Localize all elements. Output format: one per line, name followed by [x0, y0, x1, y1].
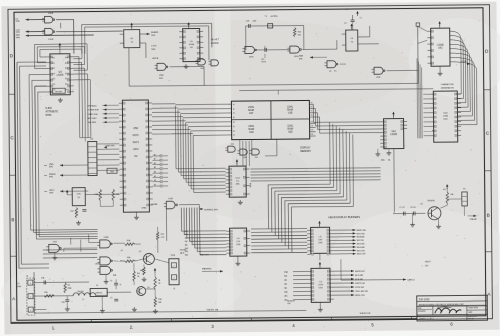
svg-text:D52: D52 [255, 157, 258, 159]
svg-text:C84: C84 [287, 303, 290, 305]
svg-text:SH5: SH5 [381, 160, 385, 162]
svg-text:U50: U50 [133, 126, 138, 130]
svg-text:VMD: VMD [49, 164, 54, 166]
svg-text:SM1: SM1 [284, 275, 287, 277]
svg-text:VTR: VTR [77, 194, 82, 196]
svg-text:C8 .05: C8 .05 [410, 207, 415, 209]
svg-text:C4: C4 [110, 297, 112, 299]
svg-text:DM1: DM1 [185, 234, 188, 236]
svg-text:2N4-A1B: 2N4-A1B [427, 199, 435, 202]
svg-text:C7: C7 [360, 17, 362, 19]
svg-text:1475: 1475 [318, 284, 324, 286]
svg-text:INTC: INTC [133, 133, 139, 137]
svg-text:LS166: LS166 [437, 45, 444, 47]
svg-text:1: 1 [30, 283, 31, 285]
svg-text:3: 3 [30, 310, 31, 312]
svg-text:SH2 SH7: SH2 SH7 [55, 91, 62, 93]
svg-text:R32: R32 [298, 32, 301, 34]
svg-text:LS04: LS04 [294, 56, 298, 58]
svg-text:22pf: 22pf [253, 20, 257, 22]
svg-text:BUSREQ SH2: BUSREQ SH2 [204, 209, 218, 211]
svg-text:SA71: SA71 [133, 140, 140, 144]
svg-text:WREN: WREN [49, 174, 56, 176]
svg-text:C3: C3 [110, 280, 112, 282]
svg-text:24HC8: 24HC8 [95, 292, 103, 294]
svg-text:DA-07: DA-07 [425, 260, 432, 263]
svg-text:LS08: LS08 [168, 198, 172, 200]
svg-text:161A: 161A [189, 43, 195, 46]
svg-text:START RGE: START RGE [87, 113, 98, 116]
svg-text:MCN 5B1: MCN 5B1 [355, 275, 363, 277]
svg-text:DB3: DB3 [311, 134, 314, 136]
svg-text:4.0 MHz: 4.0 MHz [271, 16, 278, 18]
svg-text:SHEET 1 OF 2: SHEET 1 OF 2 [419, 318, 434, 320]
svg-text:R7: R7 [121, 250, 123, 252]
svg-text:L996: L996 [443, 116, 449, 118]
svg-text:GPA 0A5: GPA 0A5 [469, 218, 476, 221]
svg-text:BD1: BD1 [65, 63, 69, 65]
svg-text:MDA 4A1: MDA 4A1 [357, 236, 365, 239]
svg-text:WIPE CDR: WIPE CDR [355, 295, 365, 297]
svg-text:.01: .01 [119, 284, 121, 286]
svg-text:R8: R8 [68, 285, 70, 287]
svg-text:VD2: VD2 [52, 68, 56, 70]
svg-text:Q1: Q1 [420, 203, 423, 205]
svg-text:U1: U1 [96, 285, 98, 287]
svg-text:MERV 5BC: MERV 5BC [357, 230, 367, 232]
svg-text:MEMORY: MEMORY [300, 150, 311, 153]
svg-text:V5 0B1: V5 0B1 [461, 61, 467, 63]
svg-text:LS08: LS08 [95, 263, 99, 265]
svg-text:MD4 4A1: MD4 4A1 [357, 246, 365, 249]
svg-text:U17: U17 [249, 112, 254, 115]
svg-text:CHAU: CHAU [141, 206, 147, 209]
svg-text:SHE WRE: SHE WRE [88, 122, 97, 124]
svg-text:GENERATOR: GENERATOR [441, 87, 454, 90]
svg-text:SH3: SH3 [159, 78, 163, 80]
svg-text:B-28057-A: B-28057-A [468, 315, 477, 318]
svg-text:D5YN 5B1: D5YN 5B1 [355, 287, 364, 289]
svg-text:IN3: IN3 [310, 115, 312, 117]
svg-text:U18: U18 [288, 111, 293, 114]
svg-text:BD5: BD5 [65, 84, 69, 86]
svg-text:BD0: BD0 [65, 57, 69, 59]
svg-text:U51: U51 [231, 144, 234, 146]
svg-text:C26: C26 [246, 21, 249, 23]
svg-text:DB2: DB2 [311, 130, 314, 132]
svg-text:L1: L1 [82, 299, 84, 301]
svg-text:U20: U20 [288, 130, 293, 133]
svg-text:DB0: DB0 [311, 121, 314, 123]
svg-text:WARNING: WARNING [202, 267, 212, 270]
svg-text:PHONE: PHONE [180, 250, 187, 252]
svg-text:CHOKE: CHOKE [77, 291, 84, 293]
svg-text:+8 +4.7: +8 +4.7 [211, 38, 220, 41]
svg-text:ONLY 4A1 5B2: ONLY 4A1 5B2 [355, 290, 368, 293]
svg-text:IN0: IN0 [310, 102, 312, 104]
svg-text:MSUN 3D4: MSUN 3D4 [355, 271, 365, 273]
svg-text:C7 .47: C7 .47 [399, 207, 404, 209]
svg-text:BD2: BD2 [65, 68, 69, 70]
svg-text:BLANK: BLANK [151, 31, 159, 34]
svg-text:2: 2 [174, 278, 175, 280]
svg-text:B: B [11, 217, 14, 222]
svg-text:POWER RGE: POWER RGE [87, 110, 99, 112]
svg-text:5V: 5V [134, 154, 137, 158]
svg-text:WAIT SH4: WAIT SH4 [200, 253, 209, 256]
svg-text:Q3: Q3 [147, 287, 149, 289]
svg-text:BUSAK: BUSAK [151, 203, 158, 206]
svg-text:BD4: BD4 [65, 78, 69, 80]
svg-text:T0A 3E1 J4A: T0A 3E1 J4A [206, 308, 218, 311]
svg-text:VD6: VD6 [52, 89, 56, 91]
svg-text:LS08: LS08 [48, 39, 54, 41]
svg-text:VD3: VD3 [52, 73, 56, 75]
svg-text:VD5: VD5 [52, 84, 56, 86]
svg-text:1.: 1. [52, 325, 56, 330]
svg-text:R9: R9 [443, 189, 445, 191]
svg-text:ATTRIBUTE: ATTRIBUTE [45, 110, 58, 113]
svg-text:U10B: U10B [104, 237, 109, 239]
svg-text:LS74: LS74 [151, 45, 157, 47]
svg-text:MD6 CDR: MD6 CDR [357, 254, 366, 256]
svg-text:Q2: Q2 [139, 251, 141, 253]
svg-text:N-800: N-800 [45, 108, 52, 110]
svg-text:334: 334 [298, 35, 301, 37]
svg-text:T3: T3 [345, 9, 347, 11]
svg-text:LS08: LS08 [48, 13, 54, 15]
svg-text:DISPV5 4B: DISPV5 4B [355, 283, 365, 285]
svg-text:1: 1 [173, 266, 174, 268]
svg-text:MD3 5B1: MD3 5B1 [357, 243, 365, 245]
svg-text:WPU: WPU [49, 190, 54, 192]
svg-text:T0A 3E1 246: T0A 3E1 246 [359, 312, 370, 315]
svg-text:2: 2 [30, 297, 31, 299]
svg-text:U42: U42 [438, 48, 443, 50]
svg-text:P4: P4 [463, 188, 465, 190]
svg-text:S04: S04 [200, 68, 203, 70]
svg-text:R13: R13 [161, 234, 164, 236]
svg-text:BD3: BD3 [65, 73, 69, 75]
svg-text:SH5: SH5 [299, 58, 303, 60]
svg-text:CHARACTER: CHARACTER [441, 83, 454, 86]
svg-text:S/N 1032: S/N 1032 [419, 297, 430, 301]
svg-text:MCA 4A1: MCA 4A1 [355, 278, 363, 281]
svg-text:HEAD DISPLAY BUFFERS: HEAD DISPLAY BUFFERS [328, 215, 360, 219]
svg-text:RAS: RAS [299, 54, 304, 57]
svg-text:Y1: Y1 [265, 16, 267, 18]
svg-text:2M3: 2M3 [284, 295, 287, 297]
svg-text:LS165: LS165 [390, 134, 397, 136]
svg-text:CPU: CPU [133, 147, 139, 151]
svg-text:IN2: IN2 [310, 111, 312, 113]
svg-text:ANT RGE2: ANT RGE2 [88, 117, 97, 120]
svg-text:U41: U41 [392, 131, 397, 133]
svg-text:0M3: 0M3 [185, 255, 188, 257]
svg-text:LS04: LS04 [376, 77, 380, 79]
svg-text:B: B [487, 213, 490, 218]
svg-text:VD1: VD1 [51, 63, 55, 65]
svg-text:CLAIR SH5: CLAIR SH5 [105, 144, 115, 147]
svg-text:BD6: BD6 [65, 89, 69, 91]
svg-text:SH07A A1a: SH07A A1a [87, 104, 96, 107]
svg-text:MD2 3B: MD2 3B [357, 240, 365, 242]
svg-text:.001uf: .001uf [261, 61, 267, 63]
svg-text:2.: 2. [130, 325, 134, 330]
svg-text:DB1: DB1 [311, 125, 314, 127]
svg-text:MD5 5B2: MD5 5B2 [357, 250, 365, 252]
svg-text:IN1: IN1 [310, 106, 312, 108]
svg-text:ADV A: ADV A [152, 57, 159, 60]
svg-text:SM3: SM3 [284, 291, 287, 293]
svg-text:LS378: LS378 [57, 75, 64, 77]
svg-text:MDV 5B1: MDV 5B1 [357, 233, 365, 235]
svg-text:VD0: VD0 [51, 57, 55, 59]
svg-text:CARDCI: CARDCI [407, 278, 415, 281]
svg-text:R14: R14 [70, 211, 73, 213]
svg-text:SH5A: SH5A [45, 114, 51, 117]
svg-text:R10: R10 [137, 273, 140, 275]
svg-text:U101: U101 [53, 241, 58, 243]
svg-text:VD4: VD4 [52, 79, 56, 81]
svg-text:counter: counter [211, 42, 219, 45]
svg-text:LS04: LS04 [249, 56, 253, 58]
svg-text:U19: U19 [249, 131, 254, 134]
